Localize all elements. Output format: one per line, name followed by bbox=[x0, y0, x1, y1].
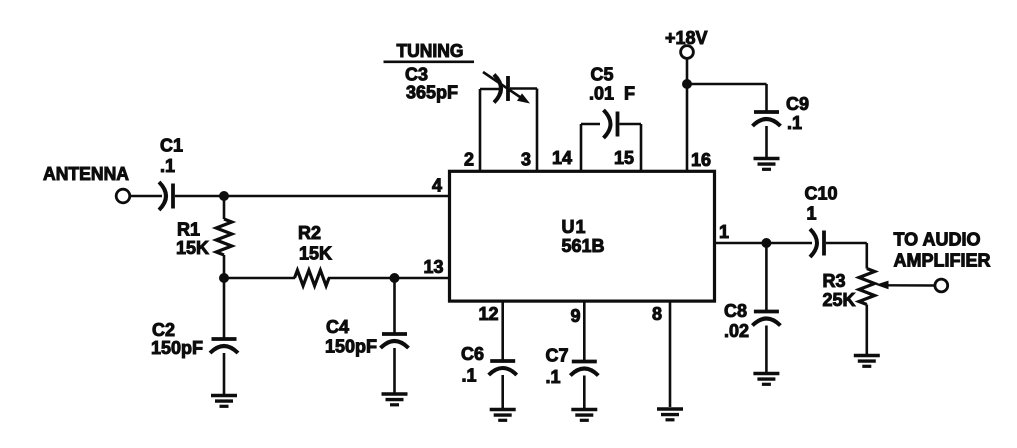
svg-text:.1: .1 bbox=[160, 156, 175, 176]
svg-text:.1: .1 bbox=[462, 366, 477, 386]
svg-text:15K: 15K bbox=[176, 238, 209, 258]
svg-text:TO AUDIO: TO AUDIO bbox=[894, 230, 981, 250]
svg-text:150pF: 150pF bbox=[325, 337, 377, 357]
svg-text:C3: C3 bbox=[405, 65, 428, 85]
svg-text:C8: C8 bbox=[724, 301, 747, 321]
svg-text:C4: C4 bbox=[326, 317, 349, 337]
svg-text:C9: C9 bbox=[786, 94, 809, 114]
svg-text:13: 13 bbox=[423, 257, 443, 277]
svg-text:U1: U1 bbox=[561, 217, 586, 237]
svg-text:1: 1 bbox=[719, 222, 729, 242]
svg-text:12: 12 bbox=[478, 304, 498, 324]
svg-text:8: 8 bbox=[652, 304, 662, 324]
svg-text:3: 3 bbox=[521, 150, 531, 170]
svg-text:365pF: 365pF bbox=[406, 83, 458, 103]
svg-text:2: 2 bbox=[464, 150, 474, 170]
svg-text:15: 15 bbox=[614, 148, 634, 168]
svg-text:15K: 15K bbox=[299, 244, 332, 264]
svg-text:R3: R3 bbox=[823, 271, 846, 291]
svg-text:C6: C6 bbox=[461, 344, 484, 364]
svg-text:R1: R1 bbox=[177, 220, 200, 240]
svg-text:.1: .1 bbox=[787, 113, 802, 133]
svg-text:.01 F: .01 F bbox=[589, 84, 635, 104]
svg-text:150pF: 150pF bbox=[151, 338, 203, 358]
svg-text:561B: 561B bbox=[561, 236, 604, 256]
svg-text:25K: 25K bbox=[823, 290, 856, 310]
svg-text:4: 4 bbox=[432, 176, 442, 196]
svg-text:ANTENNA: ANTENNA bbox=[43, 164, 129, 184]
svg-text:TUNING: TUNING bbox=[397, 41, 464, 61]
svg-text:9: 9 bbox=[570, 306, 580, 326]
svg-text:C7: C7 bbox=[546, 346, 569, 366]
svg-text:C2: C2 bbox=[152, 320, 175, 340]
svg-text:.1: .1 bbox=[546, 367, 561, 387]
svg-text:+18V: +18V bbox=[665, 28, 708, 48]
svg-text:16: 16 bbox=[691, 150, 711, 170]
svg-text:C1: C1 bbox=[160, 136, 183, 156]
svg-text:C10: C10 bbox=[805, 184, 838, 204]
svg-text:C5: C5 bbox=[591, 65, 614, 85]
svg-text:AMPLIFIER: AMPLIFIER bbox=[894, 251, 991, 271]
svg-text:1: 1 bbox=[807, 204, 817, 224]
svg-text:14: 14 bbox=[552, 148, 572, 168]
svg-text:R2: R2 bbox=[298, 223, 321, 243]
svg-text:.02: .02 bbox=[724, 321, 749, 341]
